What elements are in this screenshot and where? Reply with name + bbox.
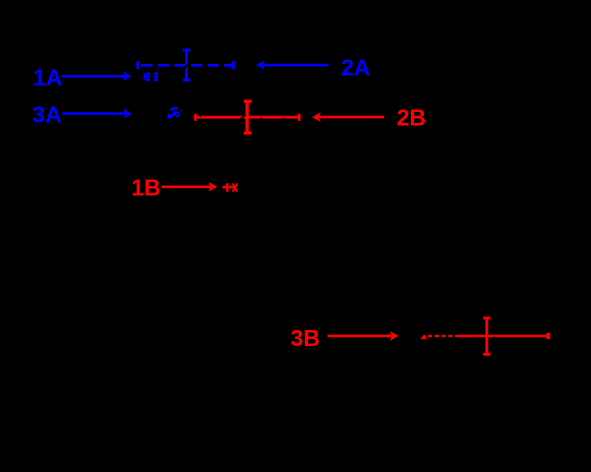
svg-text:3A: 3A	[32, 101, 61, 127]
error bar C vertical (red)	[483, 318, 490, 354]
arrow 2B	[312, 112, 384, 122]
marker cluster 1b (small red glyphs)	[223, 183, 239, 192]
arrow 3B	[327, 331, 398, 341]
label 3B	[290, 325, 319, 351]
svg-text:1B: 1B	[131, 174, 160, 200]
arrow 1B	[162, 182, 218, 192]
error bar A vertical (blue)	[183, 50, 191, 80]
label 3A	[32, 101, 61, 127]
svg-text:3B: 3B	[290, 325, 319, 351]
arrow 1A	[62, 72, 132, 82]
label 2B	[397, 104, 426, 130]
label 1B	[131, 174, 160, 200]
black notches over C	[477, 337, 495, 339]
error bar A horizontal dashed line (blue)	[138, 61, 234, 69]
arrow 3A	[62, 109, 132, 119]
svg-text:1A: 1A	[33, 65, 62, 91]
error bar B vertical (red)	[244, 101, 252, 133]
label 1A	[33, 65, 62, 91]
error bar C horizontal (red, dashed at left)	[421, 333, 549, 340]
label 2A	[341, 54, 370, 80]
arrow 2A	[256, 60, 328, 70]
marker cluster 1a (small blue glyphs)	[144, 72, 158, 81]
svg-text:2B: 2B	[397, 104, 426, 130]
error bar B horizontal (red)	[195, 114, 299, 121]
black notches over B	[200, 114, 286, 120]
svg-text:2A: 2A	[341, 54, 370, 80]
marker glyph 3a (small rotated blue glyph)	[167, 106, 181, 119]
black notch over A crossing	[184, 62, 190, 69]
